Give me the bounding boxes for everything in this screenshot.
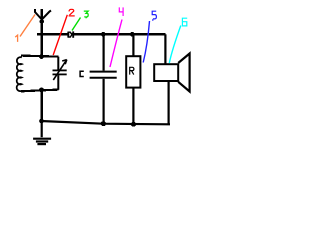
label 2 pointer — [53, 15, 67, 55]
label 1 — [15, 35, 17, 42]
label 2 — [69, 9, 75, 16]
wire tank top rail — [21, 56, 59, 57]
wire bottom horizontal — [41, 121, 170, 124]
antenna — [35, 9, 51, 22]
node top of R (junction dot) — [130, 32, 135, 37]
label 5 pointer — [143, 21, 149, 63]
node bottom of R — [131, 122, 136, 127]
node ground junction — [39, 119, 44, 124]
node bottom of C — [101, 121, 106, 126]
label R — [130, 67, 134, 74]
wire tank bottom rail — [21, 90, 58, 92]
label 4 — [119, 7, 123, 16]
label 6 pointer — [169, 26, 181, 64]
speaker LS1 — [154, 34, 189, 124]
wire main vertical — [41, 9, 43, 57]
label 5 — [152, 11, 156, 21]
label 4 pointer — [110, 20, 122, 68]
node tank bottom — [39, 87, 44, 92]
variable capacitor C1 — [53, 57, 67, 90]
capacitor C2 — [90, 34, 117, 124]
ground — [33, 121, 51, 144]
label 3 pointer — [72, 18, 81, 31]
node tank top — [39, 54, 44, 59]
resistor R1 — [126, 34, 140, 124]
label c — [80, 71, 84, 76]
inductor L1 coil — [17, 57, 22, 91]
label 1 pointer — [20, 15, 35, 37]
node antenna junction — [40, 19, 44, 23]
wire top horizontal — [37, 33, 166, 35]
diode D1 — [68, 31, 73, 37]
label 3 — [84, 11, 88, 18]
label 6 — [182, 18, 187, 26]
node top of C (junction dot) — [101, 32, 106, 37]
